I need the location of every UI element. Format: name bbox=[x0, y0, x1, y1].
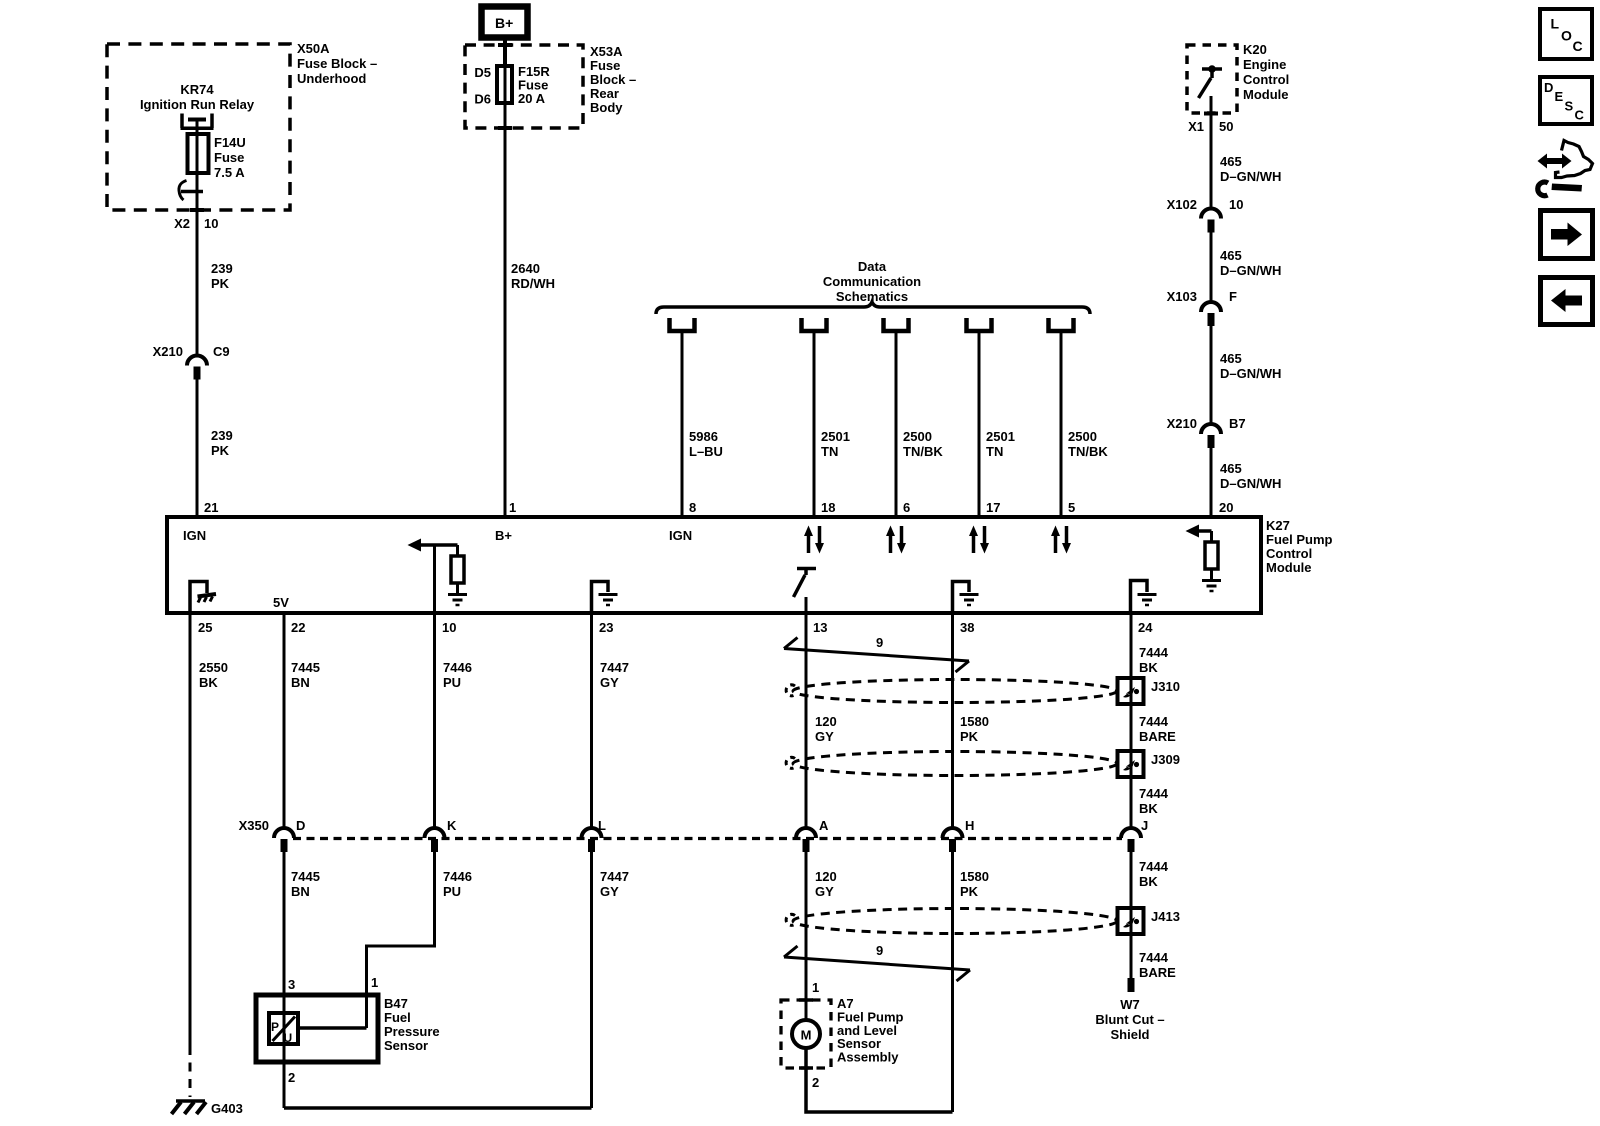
svg-text:5V: 5V bbox=[273, 595, 289, 610]
svg-text:120: 120 bbox=[815, 714, 837, 729]
terminal clip symbol bbox=[181, 190, 203, 194]
svg-text:GY: GY bbox=[600, 884, 619, 899]
svg-text:L: L bbox=[598, 818, 606, 833]
battery positive B+ box bbox=[482, 7, 528, 38]
svg-text:7444: 7444 bbox=[1139, 645, 1169, 660]
svg-text:465: 465 bbox=[1220, 351, 1242, 366]
svg-text:X350: X350 bbox=[239, 818, 269, 833]
icon LOC box bbox=[1540, 9, 1592, 59]
svg-text:G403: G403 bbox=[211, 1101, 243, 1116]
data link connector symbol 1 bbox=[670, 318, 695, 331]
svg-text:A: A bbox=[819, 818, 829, 833]
svg-text:BARE: BARE bbox=[1139, 965, 1176, 980]
svg-text:TN: TN bbox=[986, 444, 1003, 459]
internal switch pin 13 bbox=[797, 567, 816, 571]
svg-text:D–GN/WH: D–GN/WH bbox=[1220, 366, 1281, 381]
svg-text:GY: GY bbox=[815, 729, 834, 744]
internal resistor pin 10 bbox=[456, 545, 459, 556]
CAN bus arrows pin 17 bbox=[972, 534, 976, 553]
pump A7 dashed box bbox=[781, 1000, 831, 1068]
wire data link 2 bbox=[813, 333, 816, 517]
wire pin 24 to splice J310 bbox=[1130, 613, 1133, 678]
svg-text:PK: PK bbox=[960, 884, 979, 899]
svg-text:5986: 5986 bbox=[689, 429, 718, 444]
data link connector symbol 5 bbox=[1049, 318, 1074, 331]
svg-text:2: 2 bbox=[812, 1075, 819, 1090]
svg-text:465: 465 bbox=[1220, 461, 1242, 476]
svg-text:Fuse Block –: Fuse Block – bbox=[297, 56, 377, 71]
wire X103 to X210 bbox=[1210, 326, 1213, 424]
svg-text:24: 24 bbox=[1138, 620, 1153, 635]
CAN bus arrows pin 18 bbox=[807, 534, 811, 553]
svg-text:2: 2 bbox=[288, 1070, 295, 1085]
svg-text:Underhood: Underhood bbox=[297, 71, 366, 86]
svg-text:Body: Body bbox=[590, 100, 623, 115]
svg-text:D6: D6 bbox=[474, 92, 491, 107]
svg-text:2500: 2500 bbox=[903, 429, 932, 444]
icon forward arrow box bbox=[1541, 211, 1593, 259]
svg-text:D–GN/WH: D–GN/WH bbox=[1220, 169, 1281, 184]
shield ellipse 2 bbox=[793, 752, 1117, 776]
svg-text:Control: Control bbox=[1243, 72, 1289, 87]
svg-text:18: 18 bbox=[821, 500, 835, 515]
svg-text:Engine: Engine bbox=[1243, 57, 1286, 72]
fuse F15R bbox=[497, 66, 512, 103]
wire J413 to blunt cut bbox=[1130, 934, 1133, 978]
svg-text:Assembly: Assembly bbox=[837, 1050, 899, 1065]
brace data communication bbox=[656, 302, 1090, 314]
wire B47 pin 2 to ground bus bbox=[284, 1106, 592, 1110]
connector X350 terminal J bbox=[1121, 828, 1141, 838]
svg-text:C: C bbox=[1575, 108, 1585, 123]
splice J413 bbox=[1118, 908, 1144, 934]
svg-text:PK: PK bbox=[211, 443, 230, 458]
svg-text:KR74: KR74 bbox=[180, 82, 214, 97]
svg-text:20: 20 bbox=[1219, 500, 1233, 515]
wire data link 3 bbox=[895, 333, 898, 517]
svg-text:GY: GY bbox=[815, 884, 834, 899]
internal arrow at pin 10 bbox=[408, 539, 422, 552]
internal chassis reference pin 25 bbox=[190, 582, 207, 614]
wire X350 J to splice J413 bbox=[1130, 852, 1133, 908]
B47 internal wire pin 1 to transducer bbox=[298, 1026, 367, 1030]
svg-text:B+: B+ bbox=[495, 15, 513, 31]
wire fuse to pin 21 bbox=[196, 173, 199, 356]
svg-text:25: 25 bbox=[198, 620, 212, 635]
ground G403 symbol bbox=[176, 1099, 205, 1103]
svg-text:7444: 7444 bbox=[1139, 950, 1169, 965]
svg-text:D–GN/WH: D–GN/WH bbox=[1220, 476, 1281, 491]
svg-text:U: U bbox=[284, 1031, 293, 1045]
svg-text:F14U: F14U bbox=[214, 135, 246, 150]
harness connector X350 dashed line bbox=[293, 837, 1122, 840]
internal ground hook pin 24 bbox=[1131, 581, 1148, 614]
shield ellipse 1 bbox=[793, 680, 1117, 703]
wire data link 4 bbox=[978, 333, 981, 517]
tick at X53A bottom crossing bbox=[498, 126, 512, 130]
ECM internal switch symbol bbox=[1202, 67, 1222, 71]
svg-text:X1: X1 bbox=[1188, 119, 1204, 134]
wire X102 to X103 bbox=[1210, 233, 1213, 303]
connector X350 terminal L bbox=[582, 828, 602, 838]
svg-text:D: D bbox=[296, 818, 305, 833]
fuse F14U bbox=[188, 134, 209, 173]
svg-text:TN/BK: TN/BK bbox=[1068, 444, 1108, 459]
svg-text:X102: X102 bbox=[1167, 197, 1197, 212]
splice J310 bbox=[1118, 678, 1144, 704]
svg-text:PK: PK bbox=[211, 276, 230, 291]
svg-text:P: P bbox=[271, 1020, 279, 1034]
B47 internal P/U transducer symbol bbox=[269, 1013, 298, 1044]
wire B+ to fuse block bbox=[503, 38, 507, 66]
svg-text:C9: C9 bbox=[213, 344, 230, 359]
svg-text:465: 465 bbox=[1220, 154, 1242, 169]
svg-text:2501: 2501 bbox=[821, 429, 850, 444]
svg-text:7444: 7444 bbox=[1139, 859, 1169, 874]
svg-text:10: 10 bbox=[204, 216, 218, 231]
svg-text:Fuel: Fuel bbox=[384, 1010, 411, 1025]
svg-text:J310: J310 bbox=[1151, 679, 1180, 694]
svg-text:S: S bbox=[1565, 99, 1574, 114]
svg-text:BK: BK bbox=[1139, 874, 1158, 889]
wire ECM to X1 bbox=[1210, 96, 1213, 209]
connector X350 terminal H bbox=[943, 828, 963, 838]
svg-text:M: M bbox=[801, 1028, 812, 1043]
svg-text:10: 10 bbox=[442, 620, 456, 635]
svg-text:7447: 7447 bbox=[600, 869, 629, 884]
svg-text:21: 21 bbox=[204, 500, 218, 515]
wire J309 to X350 J bbox=[1130, 777, 1133, 829]
wire pin 10 to X350 K bbox=[433, 613, 436, 829]
svg-text:38: 38 bbox=[960, 620, 974, 635]
svg-text:8: 8 bbox=[689, 500, 696, 515]
svg-text:B7: B7 bbox=[1229, 416, 1246, 431]
svg-text:7.5 A: 7.5 A bbox=[214, 165, 245, 180]
svg-text:L: L bbox=[1551, 16, 1560, 32]
internal wire pin 10 bbox=[433, 545, 436, 613]
wire data link 5 bbox=[1060, 333, 1063, 517]
svg-text:2500: 2500 bbox=[1068, 429, 1097, 444]
wire pin 25 to G403 bbox=[189, 613, 192, 1046]
wire data link 1 bbox=[681, 333, 684, 517]
svg-text:IGN: IGN bbox=[183, 528, 206, 543]
svg-text:17: 17 bbox=[986, 500, 1000, 515]
svg-text:H: H bbox=[965, 818, 974, 833]
wire X350 L down to bus bbox=[590, 852, 593, 1108]
svg-text:Communication: Communication bbox=[823, 274, 921, 289]
wire X350 D to B47 pin 3 bbox=[283, 852, 286, 1108]
wire relay to fuse bbox=[196, 120, 199, 137]
connector X350 terminal D bbox=[274, 828, 294, 838]
svg-text:BN: BN bbox=[291, 884, 310, 899]
svg-text:7447: 7447 bbox=[600, 660, 629, 675]
svg-text:Rear: Rear bbox=[590, 86, 619, 101]
svg-text:BN: BN bbox=[291, 675, 310, 690]
svg-text:F: F bbox=[1229, 289, 1237, 304]
CAN bus arrows pin 6 bbox=[889, 534, 893, 553]
svg-text:BK: BK bbox=[1139, 660, 1158, 675]
svg-text:1: 1 bbox=[812, 980, 819, 995]
shield ellipse 3 bbox=[793, 909, 1117, 934]
svg-text:C: C bbox=[1573, 38, 1583, 54]
wire pin 38 to X350 H bbox=[951, 613, 954, 829]
svg-text:B47: B47 bbox=[384, 996, 408, 1011]
internal ground hook pin 38 bbox=[953, 582, 970, 614]
svg-text:J413: J413 bbox=[1151, 909, 1180, 924]
svg-text:BK: BK bbox=[199, 675, 218, 690]
svg-text:13: 13 bbox=[813, 620, 827, 635]
ECM K20 dashed outline bbox=[1187, 45, 1237, 113]
svg-text:Shield: Shield bbox=[1110, 1027, 1149, 1042]
svg-text:Fuse: Fuse bbox=[214, 150, 244, 165]
svg-text:Module: Module bbox=[1266, 560, 1312, 575]
svg-text:2550: 2550 bbox=[199, 660, 228, 675]
svg-text:1580: 1580 bbox=[960, 869, 989, 884]
svg-text:J309: J309 bbox=[1151, 752, 1180, 767]
svg-text:TN/BK: TN/BK bbox=[903, 444, 943, 459]
wire X210 to pin 20 bbox=[1210, 448, 1213, 517]
svg-text:BARE: BARE bbox=[1139, 729, 1176, 744]
svg-text:465: 465 bbox=[1220, 248, 1242, 263]
svg-text:7446: 7446 bbox=[443, 660, 472, 675]
wire pin 13 to X350 A bbox=[805, 613, 808, 829]
blunt cut W7 terminal bbox=[1128, 978, 1135, 992]
svg-text:K27: K27 bbox=[1266, 518, 1290, 533]
internal ground hook pin 23 bbox=[592, 582, 609, 614]
internal resistor pin 20 bbox=[1210, 531, 1213, 542]
svg-text:X210: X210 bbox=[153, 344, 183, 359]
internal ground pin 20 bbox=[1202, 579, 1221, 582]
tick at X53A top crossing bbox=[498, 43, 512, 47]
svg-text:RD/WH: RD/WH bbox=[511, 276, 555, 291]
svg-text:2640: 2640 bbox=[511, 261, 540, 276]
wire fuse F15R to pin 1 bbox=[504, 103, 507, 517]
wire X350 A to A7 pin 1 bbox=[805, 852, 808, 1021]
svg-text:Sensor: Sensor bbox=[384, 1038, 428, 1053]
connector X350 terminal A bbox=[796, 828, 816, 838]
icon DESC box bbox=[1540, 77, 1592, 124]
wire X350 K to B47 pin 1 bbox=[367, 852, 435, 1028]
svg-text:3: 3 bbox=[288, 977, 295, 992]
svg-text:D: D bbox=[1544, 80, 1553, 95]
wire pin 22 to X350 D bbox=[283, 613, 286, 829]
svg-text:Ignition Run Relay: Ignition Run Relay bbox=[140, 97, 255, 112]
svg-text:BK: BK bbox=[1139, 801, 1158, 816]
svg-text:X2: X2 bbox=[174, 216, 190, 231]
data link connector symbol 4 bbox=[967, 318, 992, 331]
svg-text:PU: PU bbox=[443, 675, 461, 690]
svg-text:E: E bbox=[1555, 89, 1564, 104]
svg-text:X53A: X53A bbox=[590, 44, 623, 59]
relay KR74 contact symbol bbox=[181, 114, 214, 129]
svg-text:Pressure: Pressure bbox=[384, 1024, 440, 1039]
tick at X50A box crossing bbox=[190, 208, 204, 212]
svg-text:X103: X103 bbox=[1167, 289, 1197, 304]
internal ground pin 10 bbox=[448, 593, 467, 596]
svg-text:X50A: X50A bbox=[297, 41, 330, 56]
data link connector symbol 3 bbox=[884, 318, 909, 331]
tick at A7 bottom crossing bbox=[799, 1066, 813, 1070]
fuse block X50A dashed outline bbox=[107, 44, 290, 210]
svg-text:20 A: 20 A bbox=[518, 91, 546, 106]
motor M symbol bbox=[792, 1020, 820, 1048]
svg-text:D5: D5 bbox=[474, 65, 491, 80]
svg-text:PU: PU bbox=[443, 884, 461, 899]
svg-text:1: 1 bbox=[371, 975, 378, 990]
wire A7 pin 2 to bus bbox=[806, 1048, 953, 1112]
svg-text:6: 6 bbox=[903, 500, 910, 515]
twisted pair note 9 lower bbox=[784, 957, 970, 970]
svg-text:K: K bbox=[447, 818, 457, 833]
splice J309 bbox=[1118, 751, 1144, 777]
svg-text:PK: PK bbox=[960, 729, 979, 744]
icon back arrow box bbox=[1541, 278, 1593, 325]
svg-text:D–GN/WH: D–GN/WH bbox=[1220, 263, 1281, 278]
svg-text:9: 9 bbox=[876, 635, 883, 650]
svg-text:K20: K20 bbox=[1243, 42, 1267, 57]
svg-text:Control: Control bbox=[1266, 546, 1312, 561]
svg-text:Data: Data bbox=[858, 259, 887, 274]
svg-text:23: 23 bbox=[599, 620, 613, 635]
svg-text:7444: 7444 bbox=[1139, 714, 1169, 729]
svg-text:10: 10 bbox=[1229, 197, 1243, 212]
svg-text:120: 120 bbox=[815, 869, 837, 884]
icon wrench and arrow bbox=[1543, 158, 1566, 164]
svg-text:J: J bbox=[1141, 818, 1148, 833]
wire J310 to J309 bbox=[1130, 704, 1133, 751]
svg-text:Blunt Cut –: Blunt Cut – bbox=[1095, 1012, 1164, 1027]
svg-text:B+: B+ bbox=[495, 528, 512, 543]
wire X350 H down to bus bbox=[951, 852, 954, 1112]
data link connector symbol 2 bbox=[802, 318, 827, 331]
connector X350 terminal K bbox=[425, 828, 445, 838]
svg-text:TN: TN bbox=[821, 444, 838, 459]
svg-text:7446: 7446 bbox=[443, 869, 472, 884]
svg-text:GY: GY bbox=[600, 675, 619, 690]
svg-text:2501: 2501 bbox=[986, 429, 1015, 444]
svg-text:5: 5 bbox=[1068, 500, 1075, 515]
sensor B47 Fuel Pressure Sensor box bbox=[256, 995, 378, 1062]
svg-text:50: 50 bbox=[1219, 119, 1233, 134]
svg-text:7445: 7445 bbox=[291, 660, 320, 675]
svg-text:7445: 7445 bbox=[291, 869, 320, 884]
svg-text:IGN: IGN bbox=[669, 528, 692, 543]
tick at A7 top crossing bbox=[799, 998, 813, 1002]
wire pin 23 to X350 L bbox=[590, 613, 593, 829]
svg-text:Block –: Block – bbox=[590, 72, 636, 87]
svg-text:Fuel Pump: Fuel Pump bbox=[1266, 532, 1333, 547]
fuse block X53A dashed outline bbox=[465, 45, 583, 128]
module K27 Fuel Pump Control Module box bbox=[167, 517, 1261, 613]
svg-text:239: 239 bbox=[211, 261, 233, 276]
tick at K20 box crossing bbox=[1204, 112, 1218, 116]
svg-text:O: O bbox=[1561, 28, 1572, 44]
svg-text:1580: 1580 bbox=[960, 714, 989, 729]
twisted pair note 9 upper bbox=[784, 649, 969, 662]
svg-text:239: 239 bbox=[211, 428, 233, 443]
CAN bus arrows pin 5 bbox=[1054, 534, 1058, 553]
svg-text:Fuse: Fuse bbox=[590, 58, 620, 73]
svg-text:Module: Module bbox=[1243, 87, 1289, 102]
svg-text:22: 22 bbox=[291, 620, 305, 635]
svg-text:7444: 7444 bbox=[1139, 786, 1169, 801]
svg-text:W7: W7 bbox=[1120, 997, 1140, 1012]
svg-text:X210: X210 bbox=[1167, 416, 1197, 431]
svg-text:1: 1 bbox=[509, 500, 516, 515]
svg-text:9: 9 bbox=[876, 943, 883, 958]
internal arrow at pin 20 bbox=[1186, 525, 1200, 538]
svg-text:L–BU: L–BU bbox=[689, 444, 723, 459]
